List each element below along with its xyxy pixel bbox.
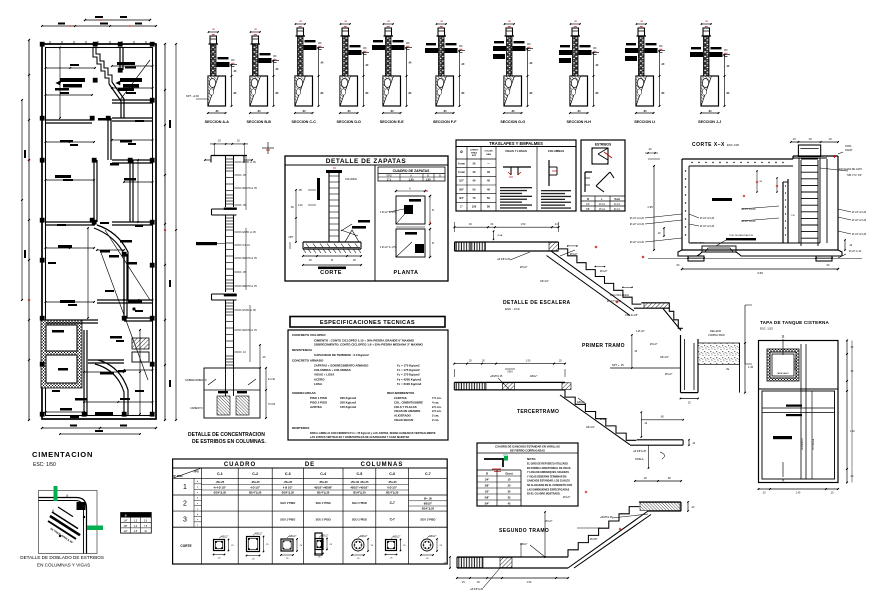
svg-text:B: B <box>331 258 333 262</box>
svg-text:Ø1/4"Δ.20: Ø1/4"Δ.20 <box>386 491 399 495</box>
svg-text:VE: VE <box>726 368 730 371</box>
svg-text:SUP: SUP <box>472 155 477 157</box>
svg-text:C-5: C-5 <box>357 472 363 476</box>
svg-text:.25x.25: .25x.25 <box>216 480 225 484</box>
svg-text:TRASLAPES Y EMPALMES: TRASLAPES Y EMPALMES <box>489 141 543 146</box>
svg-text:1.20: 1.20 <box>408 178 414 182</box>
svg-text:ESTRIBOS: ESTRIBOS <box>595 143 611 147</box>
svg-text:Ø= .30: Ø= .30 <box>424 497 432 501</box>
svg-text:2 cm.: 2 cm. <box>432 418 439 422</box>
svg-text:PRIMER TRAMO: PRIMER TRAMO <box>582 343 625 349</box>
svg-text:Ø1/4"Δ.20: Ø1/4"Δ.20 <box>353 491 366 495</box>
svg-text:7.5 cm.: 7.5 cm. <box>432 396 442 400</box>
svg-text:NOTA:: NOTA: <box>527 457 536 461</box>
svg-text:CUADRO DE ZAPATAS: CUADRO DE ZAPATAS <box>393 169 430 173</box>
svg-text:250 Kg/cm2: 250 Kg/cm2 <box>340 401 356 405</box>
svg-text:X: X <box>782 334 785 339</box>
svg-text:.60: .60 <box>290 206 294 209</box>
svg-text:4Ø1/2": 4Ø1/2" <box>429 535 437 538</box>
svg-text:1.40: 1.40 <box>796 493 801 495</box>
svg-text:ESC : 1/10: ESC : 1/10 <box>505 307 520 311</box>
svg-text:4 Ø 1/2": 4 Ø 1/2" <box>283 486 294 490</box>
svg-text:ACERO: ACERO <box>314 377 325 381</box>
svg-text:Ø=3/8": Ø=3/8" <box>590 538 598 541</box>
svg-text:Y VIGAS DEBERAN TERMINAR EN: Y VIGAS DEBERAN TERMINAR EN <box>527 475 567 478</box>
svg-text:Ø 1/4" Δ 0.20: Ø 1/4" Δ 0.20 <box>630 217 645 220</box>
svg-text:Ø=1/2": Ø=1/2" <box>545 520 553 523</box>
svg-text:Z-1: Z-1 <box>387 178 391 182</box>
svg-text:TIPO: TIPO <box>193 471 199 474</box>
svg-text:4Ø1/2": 4Ø1/2" <box>360 535 368 538</box>
svg-text:.95: .95 <box>298 189 302 192</box>
svg-text:C-6: C-6 <box>389 472 395 476</box>
svg-text:150 Kg/cm2: 150 Kg/cm2 <box>340 405 356 409</box>
svg-text:ESPECIFICACIONES TECNICAS: ESPECIFICACIONES TECNICAS <box>320 320 415 326</box>
svg-text:TAPA: TAPA <box>845 144 852 148</box>
svg-text:Ø1/4"Δ.20: Ø1/4"Δ.20 <box>249 491 262 495</box>
svg-text:SGU 1°PISO: SGU 1°PISO <box>316 501 331 505</box>
svg-text:1.50: 1.50 <box>526 360 531 363</box>
svg-text:C-4: C-4 <box>320 472 326 476</box>
svg-text:MORTEROS: MORTEROS <box>292 426 309 430</box>
svg-text:TIPO: TIPO <box>386 175 392 178</box>
svg-text:SECCION F-F: SECCION F-F <box>433 120 457 124</box>
svg-text:SECCION H-H: SECCION H-H <box>567 120 592 124</box>
svg-text:SECCION G-G: SECCION G-G <box>500 120 525 124</box>
svg-text:1/2": 1/2" <box>485 491 490 494</box>
svg-text:Ø= 1/7"Δ1/4": Ø= 1/7"Δ1/4" <box>607 300 621 303</box>
svg-text:RESTO Δ .25: RESTO Δ .25 <box>243 187 258 190</box>
svg-text:SGU 1°PISO: SGU 1°PISO <box>352 501 367 505</box>
svg-text:CORTE: CORTE <box>180 544 191 548</box>
svg-text:1/4": 1/4" <box>124 521 128 523</box>
svg-text:f'c = 2100 Kg/cm2: f'c = 2100 Kg/cm2 <box>397 382 422 386</box>
svg-text:E 0.40: E 0.40 <box>268 378 276 381</box>
svg-text:5 Δ .10: 5 Δ .10 <box>243 244 251 247</box>
svg-text:10 cm: 10 cm <box>599 204 605 206</box>
svg-text:f'y = 4200 Kg/cm2: f'y = 4200 Kg/cm2 <box>397 377 422 381</box>
svg-text:.25x.30: .25x.30 <box>319 480 328 484</box>
svg-text:NPT. +0.00: NPT. +0.00 <box>186 94 199 98</box>
svg-text:6 mm: 6 mm <box>458 170 465 174</box>
svg-text:VIGAS SECUN: VIGAS SECUN <box>394 418 413 422</box>
svg-text:1.50: 1.50 <box>521 223 526 226</box>
svg-text:COLUM: COLUM <box>484 151 492 153</box>
svg-text:LAS DIMENSIONES ESPECIFICADAS: LAS DIMENSIONES ESPECIFICADAS <box>527 488 570 491</box>
svg-text:C-7: C-7 <box>390 518 395 522</box>
svg-text:1.20: 1.20 <box>425 178 431 182</box>
svg-text:VIGAS Y LOSAS: VIGAS Y LOSAS <box>505 149 527 153</box>
svg-text:2 cm.: 2 cm. <box>432 414 439 418</box>
svg-text:SECCION I-I: SECCION I-I <box>634 120 655 124</box>
svg-text:GAN: GAN <box>486 153 491 156</box>
svg-text:6Ø1/2": 6Ø1/2" <box>424 502 433 506</box>
svg-text:3/8": 3/8" <box>124 526 128 528</box>
svg-text:5/8": 5/8" <box>485 497 490 500</box>
svg-text:1.95: 1.95 <box>647 205 653 209</box>
svg-text:CORTE: CORTE <box>320 270 342 276</box>
svg-text:TRAS: TRAS <box>471 151 477 154</box>
svg-text:4Ø1/2"+4Ø1/2": 4Ø1/2"+4Ø1/2" <box>350 486 369 490</box>
svg-text:ESC: 1/25: ESC: 1/25 <box>760 327 773 331</box>
svg-text:f'c = 175 Kg/cm2: f'c = 175 Kg/cm2 <box>397 373 420 377</box>
svg-text:COLUMNAS: COLUMNAS <box>548 149 564 153</box>
svg-text:DETALLE DE ESCALERA: DETALLE DE ESCALERA <box>503 300 571 306</box>
svg-text:SOBRECIMIENTO: SOBRECIMIENTO <box>185 378 207 382</box>
svg-text:CORTE X–X: CORTE X–X <box>692 142 725 148</box>
svg-text:Ø1/4"Δ.20: Ø1/4"Δ.20 <box>214 491 227 495</box>
svg-text:SECCION E-E: SECCION E-E <box>380 120 405 124</box>
svg-text:VIGA INCLINADA: VIGA INCLINADA <box>610 294 629 297</box>
svg-text:ESTR. Δ .05: ESTR. Δ .05 <box>243 309 257 312</box>
svg-text:1.50: 1.50 <box>527 581 532 584</box>
svg-text:POZA SUMID.: POZA SUMID. <box>691 242 705 245</box>
svg-text:VIGAS + LOSA: VIGAS + LOSA <box>314 373 335 377</box>
svg-text:Ø: Ø <box>125 515 127 517</box>
svg-text:ZAPATAS + SOBRECIMIENTO ARMADO: ZAPATAS + SOBRECIMIENTO ARMADO <box>314 364 369 368</box>
svg-text:4 Ø 1/2": 4 Ø 1/2" <box>250 486 261 490</box>
svg-text:N° PISO: N° PISO <box>173 475 182 478</box>
svg-text:+Ø3/8"Δ.25: +Ø3/8"Δ.25 <box>490 375 503 378</box>
svg-text:RESISTENCIA: RESISTENCIA <box>292 348 313 352</box>
svg-text:LONGIT: LONGIT <box>470 150 479 152</box>
svg-text:C-7: C-7 <box>425 472 431 476</box>
svg-text:.25x.30 .25x.25: .25x.30 .25x.25 <box>350 480 369 484</box>
svg-text:3.60: 3.60 <box>757 271 763 275</box>
svg-text:4 Ø 1/2" Δ .175: 4 Ø 1/2" Δ .175 <box>380 211 396 214</box>
svg-text:VIGAS DE AMARRE: VIGAS DE AMARRE <box>394 409 420 413</box>
svg-text:SOBRECIMIENTO: CONTO CICLOPEO: SOBRECIMIENTO: CONTO CICLOPEO 1:8 + 25% … <box>314 343 423 347</box>
svg-text:PISO 2 PISO: PISO 2 PISO <box>310 401 328 405</box>
svg-text:COLUMNA: COLUMNA <box>345 178 357 181</box>
svg-text:f'c = 175 Kg/cm2: f'c = 175 Kg/cm2 <box>397 368 420 372</box>
svg-text:Ø=1/2": Ø=1/2" <box>563 496 571 499</box>
svg-text:Ø: Ø <box>587 198 589 201</box>
svg-text:NIVELA: NIVELA <box>635 458 644 461</box>
svg-text:C-3: C-3 <box>285 472 291 476</box>
svg-text:DE: DE <box>305 462 315 468</box>
svg-text:RESTO Δ .25: RESTO Δ .25 <box>243 285 258 288</box>
svg-text:PISO 1 PISO: PISO 1 PISO <box>310 396 328 400</box>
svg-text:COLUMNAS: COLUMNAS <box>361 462 404 468</box>
svg-text:SUMIDERO: SUMIDERO <box>802 438 804 450</box>
svg-text:Ø=1/2": Ø=1/2" <box>570 253 578 256</box>
svg-text:CONCRETO CICLOPEO: CONCRETO CICLOPEO <box>292 333 326 337</box>
svg-text:CIMENTACION: CIMENTACION <box>32 450 93 459</box>
svg-text:1.45: 1.45 <box>748 365 754 369</box>
svg-text:REGISTRO: REGISTRO <box>795 358 797 370</box>
svg-text:X: X <box>782 478 785 483</box>
svg-text:4 Ø 1/2": 4 Ø 1/2" <box>636 330 645 333</box>
svg-text:DETALLE DE ZAPATAS: DETALLE DE ZAPATAS <box>326 158 407 165</box>
svg-text:4 Ø 1/2" Δ .175: 4 Ø 1/2" Δ .175 <box>380 246 396 249</box>
svg-text:Ø=1/2": Ø=1/2" <box>600 418 608 421</box>
svg-text:Ø=1/2": Ø=1/2" <box>520 266 528 269</box>
svg-text:+Ø 3/8"Δ.25: +Ø 3/8"Δ.25 <box>633 450 647 453</box>
svg-text:CUADRO DE GANCHOS ESTANDAR EN: CUADRO DE GANCHOS ESTANDAR EN VARILLAS <box>495 445 560 449</box>
svg-text:200 Kg/cm2: 200 Kg/cm2 <box>340 396 356 400</box>
svg-text:SGU 1°PISO: SGU 1°PISO <box>352 518 367 522</box>
svg-text:Ø: Ø <box>486 473 488 476</box>
svg-text:Ø 1/2" Δ .20: Ø 1/2" Δ .20 <box>849 250 862 253</box>
svg-text:SANIT: SANIT <box>845 148 853 152</box>
svg-text:4Ø1/2": 4Ø1/2" <box>255 533 263 536</box>
svg-text:5/8": 5/8" <box>459 187 465 191</box>
svg-text:+Ø 3/8"Δ.25: +Ø 3/8"Δ.25 <box>470 588 484 591</box>
svg-text:4Ø1/2": 4Ø1/2" <box>393 536 401 539</box>
svg-text:4+4 Ø 1/2": 4+4 Ø 1/2" <box>213 486 226 490</box>
svg-text:4Ø1/2": 4Ø1/2" <box>221 536 229 539</box>
svg-text:3/4": 3/4" <box>459 196 465 200</box>
svg-text:1: 1 <box>183 484 187 491</box>
svg-text:Ø=1/2": Ø=1/2" <box>650 343 658 346</box>
svg-text:Ø1/4"Δ.20: Ø1/4"Δ.20 <box>282 491 295 495</box>
svg-text:SGU 1°PISO: SGU 1°PISO <box>280 501 295 505</box>
svg-text:GANCHOS ESTANDAR, LOS CUALES: GANCHOS ESTANDAR, LOS CUALES <box>527 480 570 483</box>
svg-text:15 cm: 15 cm <box>599 209 605 211</box>
svg-text:2.5 cm.: 2.5 cm. <box>432 409 442 413</box>
svg-text:14 cm: 14 cm <box>614 204 620 206</box>
svg-text:1Ø=1/2": 1Ø=1/2" <box>586 426 595 429</box>
svg-text:G(cm): G(cm) <box>505 473 512 476</box>
svg-text:DETALLE DE DOBLADO DE ESTRIBOS: DETALLE DE DOBLADO DE ESTRIBOS <box>20 555 104 560</box>
svg-text:ESC: 1/50: ESC: 1/50 <box>33 462 56 468</box>
svg-text:Tend: Tend <box>614 198 620 201</box>
svg-text:ZAPATAS: ZAPATAS <box>394 396 407 400</box>
svg-text:Ø 1/2" Δ 0.20: Ø 1/2" Δ 0.20 <box>630 241 645 244</box>
svg-text:RECUBRIMIENTOS: RECUBRIMIENTOS <box>387 391 414 395</box>
svg-text:—: — <box>487 162 490 165</box>
svg-text:+Ø3/8"Δ.25: +Ø3/8"Δ.25 <box>600 516 613 519</box>
svg-text:Ø1/4"Δ.20: Ø1/4"Δ.20 <box>317 491 330 495</box>
svg-text:EN EL CUADRO MOSTRADO.: EN EL CUADRO MOSTRADO. <box>527 493 561 496</box>
svg-text:ESTR. Δ .05: ESTR. Δ .05 <box>243 231 257 234</box>
svg-text:SEGUNDO TRAMO: SEGUNDO TRAMO <box>499 528 549 534</box>
svg-text:SECCION B-B: SECCION B-B <box>247 120 272 124</box>
svg-text:RELLENO: RELLENO <box>710 330 721 333</box>
svg-text:6 Ø 1/2": 6 Ø 1/2" <box>387 486 398 490</box>
svg-text:1.40: 1.40 <box>850 430 855 433</box>
svg-text:1/4": 1/4" <box>586 204 590 206</box>
svg-text:NPT + .25: NPT + .25 <box>612 363 624 367</box>
svg-text:TERCERTRAMO: TERCERTRAMO <box>517 409 559 415</box>
svg-text:4Ø1/2": 4Ø1/2" <box>530 375 538 378</box>
svg-text:DE FIERRO CORRUGADAS: DE FIERRO CORRUGADAS <box>510 449 545 453</box>
svg-text:1.20: 1.20 <box>298 204 303 207</box>
svg-text:PARA LADRILLO CON CEMENTO F'm: PARA LADRILLO CON CEMENTO F'm = 35 Kg/cm… <box>310 432 436 435</box>
svg-text:1Ø=1/2": 1Ø=1/2" <box>540 280 549 283</box>
svg-text:LAS JUNTAS VERTICALES Y HORIZO: LAS JUNTAS VERTICALES Y HORIZONTALES DE … <box>310 436 410 439</box>
svg-text:C-1: C-1 <box>217 472 223 476</box>
svg-text:Ø=1/2": Ø=1/2" <box>600 270 608 273</box>
svg-text:SGU 1°PISO: SGU 1°PISO <box>420 518 435 522</box>
svg-text:3: 3 <box>183 517 187 524</box>
svg-text:ESTR. Δ .05: ESTR. Δ .05 <box>243 161 257 164</box>
svg-text:2.5 cm.: 2.5 cm. <box>432 405 442 409</box>
svg-text:SE ALOJARAN EN EL CONCRETO CON: SE ALOJARAN EN EL CONCRETO CON <box>527 484 572 487</box>
svg-text:4Ø1/2": 4Ø1/2" <box>577 401 585 404</box>
svg-text:NPT: NPT <box>289 236 294 239</box>
svg-text:SGU 1°PISO: SGU 1°PISO <box>316 518 331 522</box>
svg-text:SECCION C-C: SECCION C-C <box>292 120 317 124</box>
svg-text:Ø=1/2": Ø=1/2" <box>665 373 673 376</box>
svg-text:PLANTA: PLANTA <box>394 270 419 276</box>
svg-text:Ø1/4"Δ.20: Ø1/4"Δ.20 <box>422 507 435 511</box>
svg-text:C-7: C-7 <box>390 501 395 505</box>
svg-text:COLS Y PLACAS: COLS Y PLACAS <box>394 405 417 409</box>
svg-text:ESC 1/25: ESC 1/25 <box>727 143 739 147</box>
svg-text:COL. CIMENT/SOBRE: COL. CIMENT/SOBRE <box>394 400 423 404</box>
svg-text:EL GIRO DE REFUERZO UTILIZADO: EL GIRO DE REFUERZO UTILIZADO <box>527 463 568 466</box>
svg-text:1/4": 1/4" <box>485 479 490 482</box>
svg-text:COLUMNAS + COLUMNAS: COLUMNAS + COLUMNAS <box>314 368 351 372</box>
svg-text:CISTERNA: CISTERNA <box>812 438 815 450</box>
svg-text:ALIGERADO: ALIGERADO <box>394 414 412 418</box>
svg-text:LOSA: LOSA <box>314 382 323 386</box>
svg-text:3/4": 3/4" <box>485 503 490 506</box>
svg-text:Ø 1/4" Δ 0.20: Ø 1/4" Δ 0.20 <box>852 211 867 214</box>
svg-text:DETALLE DE CONCENTRACION: DETALLE DE CONCENTRACION <box>188 432 265 438</box>
svg-text:1/2": 1/2" <box>459 179 465 183</box>
svg-text:H 0.60: H 0.60 <box>268 403 276 406</box>
svg-text:Ø 1/4" Δ 0.20: Ø 1/4" Δ 0.20 <box>700 217 715 220</box>
svg-text:2: 2 <box>183 501 187 508</box>
svg-text:VIGA: VIGA <box>507 371 513 374</box>
svg-text:SECCION A-A: SECCION A-A <box>205 120 230 124</box>
svg-text:Y LOSA DE EMBARQUES, SOLERAS: Y LOSA DE EMBARQUES, SOLERAS <box>527 471 569 474</box>
svg-text:.25x.25: .25x.25 <box>251 480 260 484</box>
svg-text:120: 120 <box>472 205 477 209</box>
svg-text:CUADRO: CUADRO <box>224 462 256 468</box>
svg-text:Ø 1/2" Δ 0.20: Ø 1/2" Δ 0.20 <box>700 225 715 228</box>
svg-text:CAPACIDAD DE TERRENO : 2.0 Kg/: CAPACIDAD DE TERRENO : 2.0 Kg/cm2 <box>314 353 369 357</box>
svg-text:C-2: C-2 <box>252 472 258 476</box>
svg-text:DE ESTRIBOS EN COLUMNAS.: DE ESTRIBOS EN COLUMNAS. <box>192 439 267 445</box>
svg-text:3/8": 3/8" <box>485 485 490 488</box>
svg-text:Ø 1/2" Δ 0.20: Ø 1/2" Δ 0.20 <box>630 223 645 226</box>
svg-text:+Ø 3/8"Δ.25: +Ø 3/8"Δ.25 <box>497 258 511 261</box>
svg-text:.20: .20 <box>648 148 652 151</box>
svg-text:6 mm: 6 mm <box>458 161 465 165</box>
svg-text:Ø 1/2" Δ 0.25: Ø 1/2" Δ 0.25 <box>852 219 867 222</box>
svg-text:TUB. DE RENOVACION: TUB. DE RENOVACION <box>729 234 753 237</box>
svg-text:3/8": 3/8" <box>586 209 590 211</box>
svg-text:COMPACTADO: COMPACTADO <box>708 334 725 337</box>
svg-text:CIMIENTO: CIMIENTO <box>190 406 203 410</box>
svg-text:4Ø1/2"+4Ø3/8": 4Ø1/2"+4Ø3/8" <box>314 486 333 490</box>
svg-text:CIM. Δ=1/8": CIM. Δ=1/8" <box>625 314 638 317</box>
svg-text:4Ø1/2": 4Ø1/2" <box>289 535 297 538</box>
svg-text:1Ø=1/2": 1Ø=1/2" <box>660 356 669 359</box>
svg-text:TUB. F°G° 3/4": TUB. F°G° 3/4" <box>846 175 862 177</box>
svg-text:1/2": 1/2" <box>124 531 128 533</box>
svg-text:RESTO Δ .25: RESTO Δ .25 <box>243 257 258 260</box>
svg-text:EN COLUMNAS Y VIGAS: EN COLUMNAS Y VIGAS <box>37 563 90 568</box>
svg-text:TAPA DE TANQUE CISTERNA: TAPA DE TANQUE CISTERNA <box>760 320 829 325</box>
svg-text:CONCRETO ARMADO: CONCRETO ARMADO <box>292 359 324 363</box>
svg-text:SOBRECARGAS: SOBRECARGAS <box>292 391 316 395</box>
svg-text:SECCION J-J: SECCION J-J <box>698 120 721 124</box>
svg-text:EN FORMA LONGITUDINAL DE VIGAS: EN FORMA LONGITUDINAL DE VIGAS <box>527 467 571 470</box>
svg-text:TAPA SANIT.: TAPA SANIT. <box>777 372 790 375</box>
svg-text:4 cm.: 4 cm. <box>432 400 439 404</box>
svg-text:20 cm: 20 cm <box>614 209 620 211</box>
svg-text:AZOTEA: AZOTEA <box>310 405 323 409</box>
svg-text:f'c = 175 Kg/cm2: f'c = 175 Kg/cm2 <box>397 364 420 368</box>
svg-text:VIGA: VIGA <box>497 234 503 237</box>
svg-text:.25x.25: .25x.25 <box>283 480 292 484</box>
svg-text:SGU 1°PISO: SGU 1°PISO <box>280 518 295 522</box>
svg-text:Ø 1/4" Δ 0.20: Ø 1/4" Δ 0.20 <box>852 233 867 236</box>
svg-text:SECCION D-D: SECCION D-D <box>337 120 362 124</box>
svg-text:.25x.25: .25x.25 <box>388 480 397 484</box>
